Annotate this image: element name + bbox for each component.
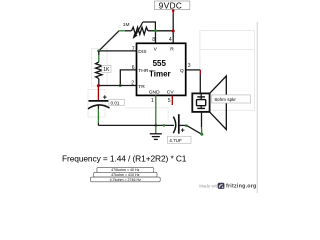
svg-text:TR: TR (138, 84, 145, 90)
wire 9VDC to rail and pin 4 (172, 10, 174, 44)
junction pin4 (172, 30, 175, 33)
resistor R1 1M potentiometer (132, 27, 156, 34)
svg-text:Frequency = 1.44 / (R1+2R2) *: Frequency = 1.44 / (R1+2R2) * C1 (62, 154, 187, 164)
svg-text:R: R (170, 46, 174, 52)
table row 470kohm (97, 168, 154, 173)
svg-text:+: + (103, 95, 107, 102)
capacitor C1 0.01 (88, 86, 110, 126)
table row 47kohm (94, 172, 157, 177)
node GND-rail junction (154, 124, 157, 127)
svg-text:+: + (181, 128, 185, 135)
selection box capacitor C1 (88, 90, 105, 118)
pin numbers (131, 37, 190, 104)
svg-text:4.7kohm = 2746 Hz: 4.7kohm = 2746 Hz (110, 178, 141, 182)
svg-text:470kohm = 40 Hz: 470kohm = 40 Hz (111, 168, 139, 172)
svg-text:6: 6 (132, 65, 135, 71)
svg-text:1K: 1K (103, 67, 110, 73)
svg-text:8ohm spkr: 8ohm spkr (215, 97, 237, 102)
node speaker-cap junction (200, 133, 203, 136)
svg-text:555: 555 (153, 59, 167, 68)
svg-text:Made with: Made with (199, 184, 220, 189)
svg-text:GND: GND (149, 90, 160, 96)
svg-text:5: 5 (168, 98, 171, 104)
svg-text:fritzing.org: fritzing.org (226, 184, 257, 190)
svg-text:47kohm = 410 Hz: 47kohm = 410 Hz (111, 173, 139, 177)
selection box resistor R2 (92, 49, 108, 87)
svg-text:3: 3 (188, 63, 191, 69)
node TR junction (97, 84, 100, 87)
power label 9VDC (155, 1, 190, 10)
svg-text:Q: Q (180, 68, 184, 74)
svg-text:Timer: Timer (149, 70, 171, 79)
junction pin8 (154, 29, 157, 32)
selection box speaker area (200, 31, 255, 111)
V+ rail (156, 31, 174, 44)
svg-text:CV: CV (167, 90, 175, 96)
node THR-TR junction (119, 84, 122, 87)
svg-text:0.01: 0.01 (111, 100, 120, 105)
wire TR (98, 85, 136, 87)
label 0.01 (109, 99, 124, 105)
window edge line (256, 22, 258, 193)
table row 4.7kohm (91, 177, 161, 182)
wire DIS diagonal to R1 (99, 31, 132, 51)
svg-text:THR: THR (138, 68, 149, 74)
555 timer U1 (137, 43, 186, 95)
pin 1 GND stub (155, 95, 157, 133)
watermark Made with fritzing.org (199, 183, 256, 190)
bottom rail wire (98, 124, 174, 126)
node DIS junction (97, 49, 100, 52)
svg-text:1M: 1M (123, 22, 130, 28)
svg-text:4.7UF: 4.7UF (169, 138, 182, 143)
wire THR with jog (120, 70, 136, 86)
svg-text:8: 8 (152, 37, 155, 43)
ground (150, 134, 162, 140)
selection box net TR-C1 (125, 108, 168, 122)
pin 5 CV stub (171, 95, 173, 105)
svg-text:1: 1 (151, 98, 154, 104)
label 1K (102, 65, 111, 73)
svg-text:9VDC: 9VDC (159, 1, 182, 10)
speaker bottom lead (201, 112, 203, 134)
R1 wiper arrow (133, 22, 156, 39)
resistor R2 1K (96, 51, 102, 86)
wire DIS (99, 50, 137, 52)
label 4.7UF (168, 136, 192, 143)
svg-text:DIS: DIS (138, 49, 147, 55)
svg-text:4: 4 (169, 37, 172, 43)
label 8ohm spkr (212, 95, 251, 103)
capacitor C2 4.7UF (173, 114, 202, 134)
svg-text:2: 2 (131, 80, 134, 86)
wire Q to speaker (186, 70, 201, 94)
svg-text:7: 7 (132, 46, 135, 52)
speaker LS1 (192, 76, 226, 130)
